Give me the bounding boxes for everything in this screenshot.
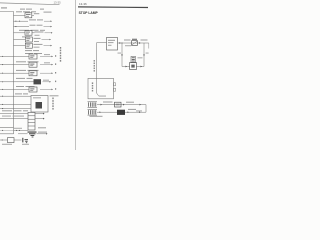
svg-text:STOP LAMP: STOP LAMP [79, 11, 99, 15]
svg-text:13-35: 13-35 [54, 1, 62, 5]
svg-text:13-36: 13-36 [79, 2, 87, 6]
